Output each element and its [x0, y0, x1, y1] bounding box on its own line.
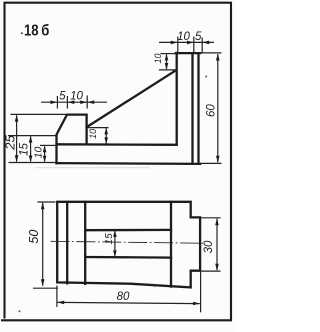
plan dims thin [33, 202, 221, 312]
svg-text:15: 15 [104, 233, 115, 245]
left extension lines [11, 113, 67, 115]
column small 10 [161, 53, 177, 55]
column 10 [165, 54, 169, 61]
rib top line [85, 229, 171, 232]
internal vertical x=86.6 [84, 202, 86, 284]
svg-text:18 б: 18 б [24, 23, 49, 40]
10 left [43, 146, 47, 153]
centerline [51, 241, 204, 243]
60 ext lines [199, 52, 222, 54]
stray specks [19, 310, 21, 312]
paper background [0, 0, 236, 332]
border frame [1, 3, 231, 321]
svg-text:30: 30 [203, 240, 215, 253]
top right ext lines [177, 37, 179, 53]
label 18б [21, 23, 49, 40]
60 [216, 54, 220, 61]
top right dim line [159, 41, 214, 43]
svg-text:10: 10 [177, 31, 190, 43]
internal vertical x=171 [170, 202, 172, 287]
column top edge [176, 52, 200, 54]
svg-text:10: 10 [70, 90, 83, 102]
outer outline [57, 202, 200, 288]
30 ext [200, 217, 220, 219]
internal vertical x=67 [66, 202, 68, 283]
plan arrowheads [41, 202, 219, 305]
bottom edge [57, 162, 201, 165]
svg-text:5: 5 [59, 90, 66, 102]
30 [215, 218, 219, 225]
60 dim line [217, 54, 219, 162]
dim lines 25 / 15 / 10 [16, 115, 18, 161]
top right 10/5 [171, 41, 178, 45]
svg-text:10: 10 [153, 53, 163, 63]
top bump ticks [56, 96, 58, 109]
mid 10 ext + dim [88, 127, 109, 129]
80 [57, 301, 64, 305]
80 ext [56, 286, 58, 308]
bump 5/10 arrows [50, 100, 57, 104]
svg-text:10: 10 [33, 147, 45, 159]
15 dim line [114, 231, 116, 257]
svg-text:60: 60 [205, 104, 217, 117]
50 ext [38, 201, 56, 203]
top bump dim line [41, 101, 107, 103]
svg-text:80: 80 [117, 291, 130, 303]
base top edge [57, 143, 177, 146]
svg-text:10: 10 [88, 129, 98, 139]
outline left: left edge, slant, bump top, bump right [57, 115, 87, 164]
plan dim texts [27, 230, 215, 303]
15 [29, 136, 33, 143]
25 [15, 115, 19, 122]
arrowheads front view [15, 41, 220, 163]
mid 10 [104, 128, 108, 135]
column left edge [176, 53, 178, 145]
svg-text:25: 25 [3, 135, 18, 151]
rib bottom line [85, 256, 171, 259]
column right edge [197, 53, 199, 164]
svg-text:15: 15 [19, 143, 31, 156]
column inner line [191, 53, 193, 164]
svg-text:50: 50 [27, 230, 41, 244]
50 [41, 202, 45, 209]
svg-text:5: 5 [195, 31, 202, 43]
front view dimensions (thin) [8, 37, 222, 164]
diagonal rib [87, 70, 176, 127]
front view dim texts [3, 31, 218, 158]
15 [113, 230, 117, 237]
